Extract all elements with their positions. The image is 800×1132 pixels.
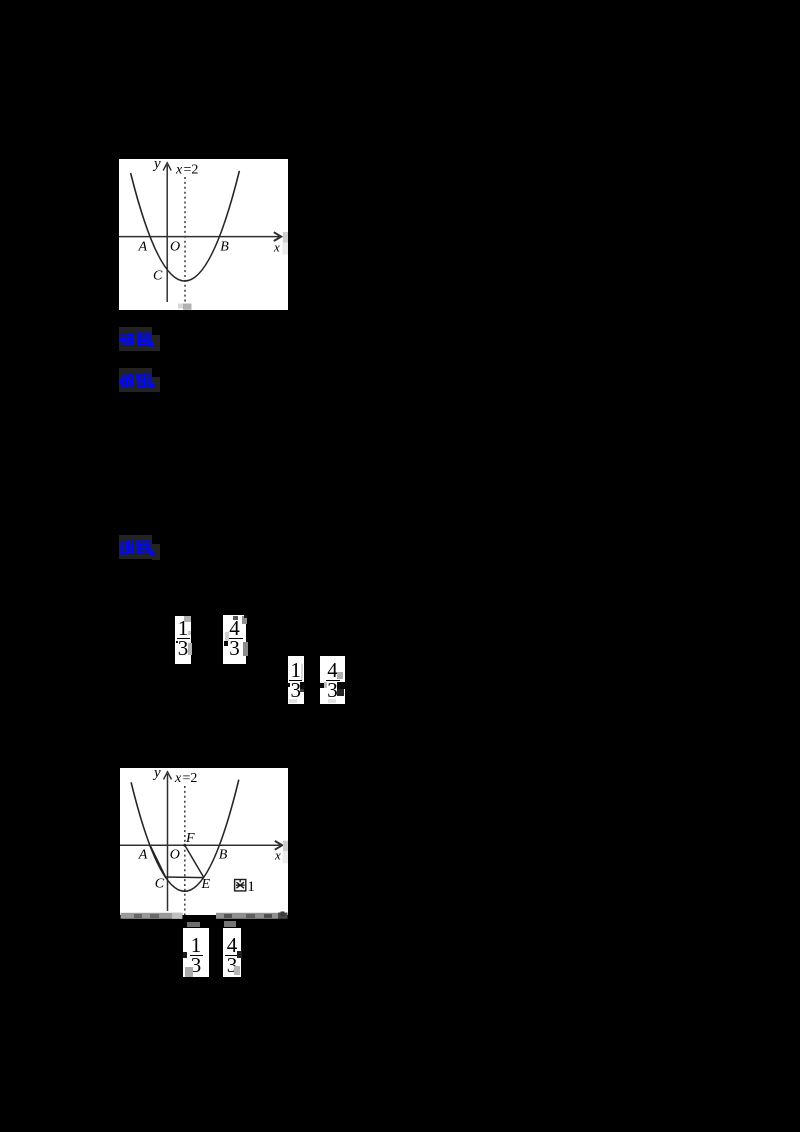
svg-text:y: y <box>152 159 161 172</box>
svg-text:C: C <box>155 876 165 891</box>
svg-text:x: x <box>175 163 183 178</box>
svg-text:O: O <box>170 848 180 863</box>
svg-text:B: B <box>219 848 228 863</box>
svg-text:x: x <box>273 240 280 255</box>
svg-text:x: x <box>174 771 182 786</box>
svg-text:=2: =2 <box>184 163 199 178</box>
svg-text:x: x <box>274 848 281 863</box>
svg-text:E: E <box>201 877 211 892</box>
svg-text:A: A <box>138 240 148 255</box>
svg-text:=2: =2 <box>183 771 198 786</box>
svg-text:O: O <box>170 240 180 255</box>
svg-text:y: y <box>152 768 161 781</box>
svg-text:C: C <box>153 269 163 284</box>
svg-text:F: F <box>185 831 195 846</box>
svg-text:1: 1 <box>247 879 255 895</box>
svg-text:A: A <box>138 848 148 863</box>
svg-text:B: B <box>220 239 229 254</box>
